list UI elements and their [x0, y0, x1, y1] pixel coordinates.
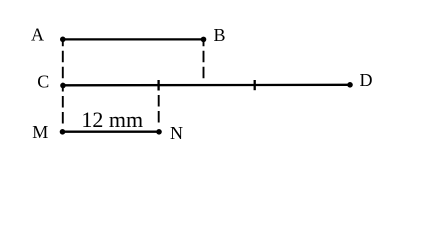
svg-text:N: N	[170, 123, 183, 143]
svg-text:A: A	[31, 25, 44, 45]
svg-text:B: B	[214, 25, 226, 45]
svg-text:D: D	[360, 70, 373, 90]
svg-text:C: C	[37, 71, 49, 91]
svg-text:12 mm: 12 mm	[81, 107, 143, 132]
svg-text:M: M	[32, 122, 48, 142]
